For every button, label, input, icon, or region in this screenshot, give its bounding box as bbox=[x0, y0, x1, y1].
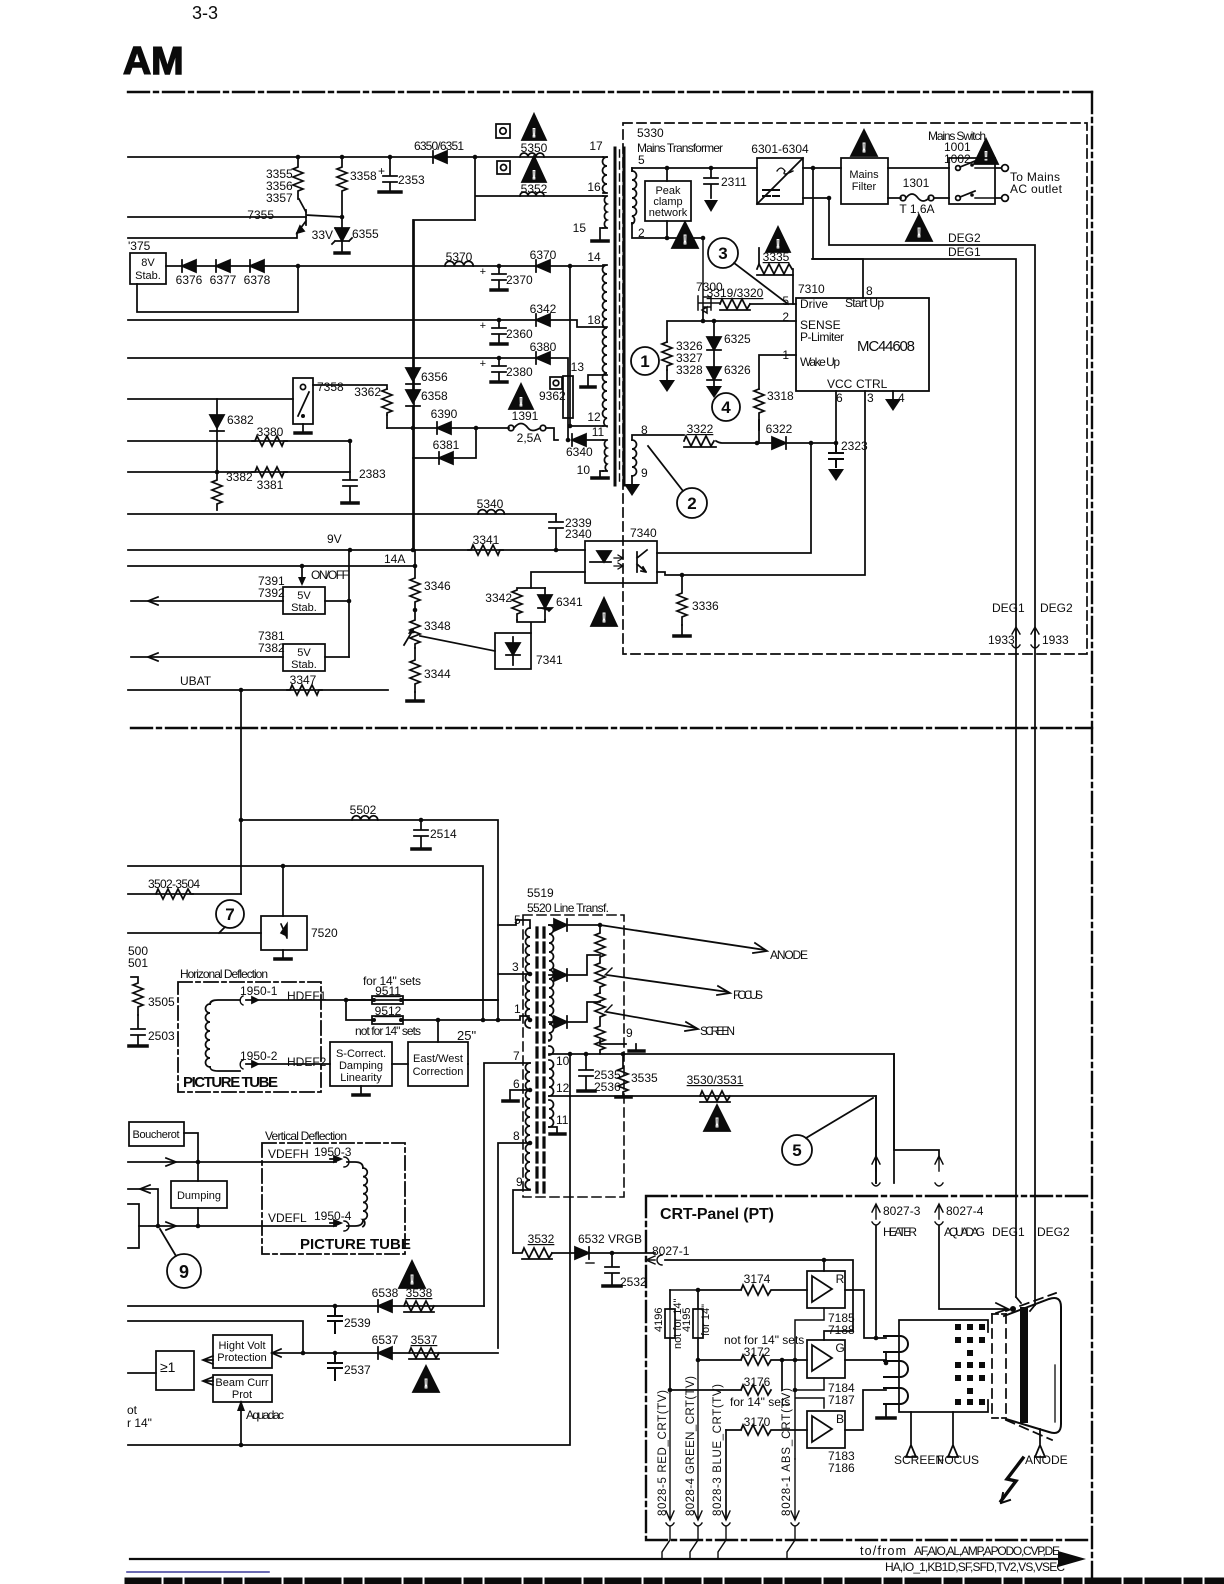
wire 5V out left arrow bbox=[131, 600, 283, 602]
svg-text:3362: 3362 bbox=[354, 385, 381, 399]
dumping verticals bbox=[197, 1162, 199, 1226]
svg-text:6538: 6538 bbox=[372, 1286, 399, 1300]
svg-text:B: B bbox=[836, 1412, 844, 1426]
diodes 6325 6326 bbox=[707, 321, 721, 380]
svg-text:6322: 6322 bbox=[766, 422, 793, 436]
svg-text:6376: 6376 bbox=[176, 273, 203, 287]
svg-text:8027-3: 8027-3 bbox=[883, 1204, 921, 1218]
svg-text:17: 17 bbox=[589, 139, 603, 153]
svg-text:16: 16 bbox=[587, 180, 601, 194]
capacitor 2537 bbox=[328, 1353, 342, 1380]
svg-text:Dumping: Dumping bbox=[177, 1190, 221, 1202]
transistor box 7520 bbox=[282, 866, 284, 916]
ground 3336 bbox=[674, 634, 690, 638]
box Beam Curr Prot bbox=[213, 1375, 272, 1402]
PSU dashed enclosure bbox=[623, 123, 1087, 654]
capacitor 2380 bbox=[492, 358, 506, 381]
diode 6378 bbox=[250, 260, 264, 272]
diode 6380 bbox=[536, 352, 550, 364]
svg-text:3358: 3358 bbox=[350, 169, 377, 183]
svg-text:3538: 3538 bbox=[406, 1286, 433, 1300]
svg-text:2514: 2514 bbox=[430, 827, 457, 841]
svg-text:7341: 7341 bbox=[536, 653, 563, 667]
wire 3380 line bbox=[128, 440, 350, 442]
svg-text:3319/3320: 3319/3320 bbox=[707, 286, 764, 300]
wire 18V line bbox=[128, 320, 603, 327]
fuse 1391 bbox=[508, 425, 514, 431]
mains transformer 5330 core bbox=[614, 148, 617, 485]
svg-text:!: ! bbox=[424, 1376, 428, 1391]
svg-text:6355: 6355 bbox=[352, 227, 379, 241]
svg-text:1: 1 bbox=[640, 352, 649, 371]
svg-text:MC44608: MC44608 bbox=[857, 338, 915, 355]
ferrite bead 5350 bbox=[520, 153, 544, 157]
svg-text:2360: 2360 bbox=[506, 327, 533, 341]
svg-text:3505: 3505 bbox=[148, 995, 175, 1009]
svg-text:33V: 33V bbox=[312, 228, 333, 242]
svg-text:3381: 3381 bbox=[257, 478, 284, 492]
svg-text:FOCUS: FOCUS bbox=[937, 1453, 979, 1467]
resistor 3341 bbox=[468, 545, 503, 555]
svg-text:11: 11 bbox=[592, 425, 605, 439]
pin1 wire bbox=[528, 1018, 533, 1023]
box Hight Volt Protection bbox=[213, 1335, 272, 1368]
chain border right vertical bbox=[1091, 92, 1093, 1584]
svg-text:6378: 6378 bbox=[244, 273, 271, 287]
focus stub bbox=[948, 1412, 958, 1457]
svg-text:2353: 2353 bbox=[398, 173, 425, 187]
clipped box left bbox=[128, 1204, 139, 1248]
svg-text:5520 Line Transf.: 5520 Line Transf. bbox=[527, 901, 609, 915]
svg-text:ANODE: ANODE bbox=[1025, 1453, 1068, 1467]
svg-text:6390: 6390 bbox=[431, 407, 458, 421]
box Mains Filter bbox=[841, 158, 888, 204]
svg-text:4195: 4195 bbox=[681, 1308, 693, 1332]
svg-text:+: + bbox=[480, 266, 486, 278]
focus pot wiper bbox=[605, 968, 612, 1012]
svg-text:Correction: Correction bbox=[413, 1066, 464, 1078]
warning triangle 1391 bbox=[509, 384, 533, 409]
diode 6390 bbox=[437, 422, 451, 434]
svg-text:7187: 7187 bbox=[828, 1393, 855, 1407]
pin6 wire ground bbox=[510, 1090, 530, 1100]
svg-text:3502-3504: 3502-3504 bbox=[148, 877, 200, 891]
circle 5 callout bbox=[782, 1135, 812, 1165]
svg-text:7382: 7382 bbox=[258, 641, 285, 655]
wire line A 6390 bbox=[387, 427, 509, 429]
svg-text:3341: 3341 bbox=[473, 533, 500, 547]
box East/West bbox=[408, 1042, 468, 1086]
wire 6538 line bbox=[128, 1305, 484, 1307]
warning triangle 5352 bbox=[522, 156, 546, 182]
wire R supply bbox=[823, 1260, 825, 1271]
svg-text:East/West: East/West bbox=[413, 1053, 463, 1065]
wire into 7358 bbox=[128, 398, 293, 400]
pin5 wire bbox=[498, 920, 530, 928]
diode 6356 bbox=[406, 368, 420, 390]
svg-text:5: 5 bbox=[782, 294, 789, 308]
svg-text:2: 2 bbox=[782, 310, 789, 324]
svg-text:+: + bbox=[480, 320, 486, 332]
svg-text:!: ! bbox=[984, 149, 988, 163]
circle 7 callout bbox=[216, 900, 244, 928]
diode 6538 bbox=[378, 1300, 392, 1312]
svg-text:3344: 3344 bbox=[424, 667, 451, 681]
svg-text:HEATER: HEATER bbox=[883, 1225, 917, 1239]
svg-text:6: 6 bbox=[513, 1077, 520, 1091]
wire 5V2 in right bbox=[325, 656, 349, 658]
CRT screen band bbox=[1020, 1311, 1028, 1419]
diode 6358 bbox=[406, 390, 420, 406]
wire pin2 bbox=[632, 223, 703, 238]
svg-text:2370: 2370 bbox=[506, 273, 533, 287]
vdef coil bbox=[347, 1162, 363, 1226]
svg-text:6342: 6342 bbox=[530, 302, 557, 316]
bus arrowhead bbox=[1058, 1551, 1086, 1567]
svg-text:8: 8 bbox=[513, 1129, 520, 1143]
diode 6537 bbox=[378, 1347, 392, 1359]
svg-text:!: ! bbox=[776, 237, 780, 251]
pin11 wire ground bbox=[549, 1127, 557, 1133]
wire 3381 line bbox=[128, 471, 350, 473]
warning triangle 5350 bbox=[522, 114, 546, 140]
wire line B 6381 bbox=[413, 428, 476, 458]
svg-text:7310: 7310 bbox=[798, 282, 825, 296]
wire DEG2 bbox=[829, 198, 1035, 1305]
svg-text:6358: 6358 bbox=[421, 389, 448, 403]
transistor 7355 bbox=[297, 210, 342, 233]
resistor 3355 3356 3357 bbox=[293, 157, 303, 199]
svg-text:3: 3 bbox=[512, 960, 519, 974]
diode 6381 bbox=[439, 452, 453, 464]
primary winding 8-9 bbox=[632, 440, 637, 476]
svg-text:HDEF1: HDEF1 bbox=[287, 989, 327, 1003]
svg-text:'375: '375 bbox=[128, 239, 151, 253]
wires rectifier to filter bbox=[803, 168, 841, 198]
secondary winding 11-10 bbox=[603, 440, 607, 471]
eht diode 1 bbox=[549, 919, 567, 931]
wire fuse to 6340 bbox=[546, 428, 558, 440]
diode 6350/6351 bbox=[433, 151, 447, 163]
wire wiper to 7341 bbox=[420, 636, 495, 651]
svg-text:r 14": r 14" bbox=[127, 1416, 152, 1430]
ground 3344 bbox=[414, 692, 416, 700]
svg-text:3176: 3176 bbox=[744, 1375, 771, 1389]
svg-text:Stab.: Stab. bbox=[291, 659, 317, 671]
wire VDEFH bbox=[128, 1161, 336, 1163]
wire 5340 line bbox=[128, 513, 556, 515]
CRT gun box bbox=[899, 1320, 988, 1412]
pot chain bottom ground 9 bbox=[549, 1040, 626, 1044]
capacitor 2514 bbox=[414, 820, 428, 848]
diode 6377 bbox=[216, 260, 230, 272]
wire pin5 bus bbox=[632, 168, 757, 171]
CRT bulb outline bbox=[1004, 1298, 1061, 1433]
svg-text:9: 9 bbox=[626, 1026, 633, 1040]
box 7341 bbox=[495, 633, 531, 669]
svg-text:14: 14 bbox=[587, 250, 601, 264]
inductor 5340 bbox=[478, 510, 504, 514]
svg-text:1933: 1933 bbox=[988, 633, 1015, 647]
svg-text:Stab.: Stab. bbox=[135, 270, 161, 282]
capacitor 2360 bbox=[492, 320, 506, 343]
svg-text:9362: 9362 bbox=[539, 389, 566, 403]
line transformer dashed box bbox=[523, 915, 624, 1197]
wire G output bbox=[845, 1360, 886, 1363]
svg-text:VDEFL: VDEFL bbox=[268, 1211, 307, 1225]
svg-text:DEG2: DEG2 bbox=[1040, 601, 1073, 615]
svg-text:1933: 1933 bbox=[1042, 633, 1069, 647]
aquadag vertical from pin10 line bbox=[128, 1054, 570, 1445]
pin10 line bbox=[549, 1054, 894, 1183]
svg-text:6380: 6380 bbox=[530, 340, 557, 354]
ferrite bead 5352 bbox=[520, 192, 544, 196]
svg-text:5: 5 bbox=[792, 1141, 801, 1160]
secondary winding 17-16 bbox=[603, 157, 608, 193]
svg-text:14A: 14A bbox=[384, 552, 405, 566]
chain border top bbox=[128, 91, 1092, 93]
wire collector to VCC node bbox=[657, 443, 811, 553]
gun heater coils bbox=[884, 1336, 908, 1404]
svg-text:4196: 4196 bbox=[653, 1308, 665, 1332]
svg-text:5V: 5V bbox=[297, 590, 311, 602]
CRT dashed gun extension bbox=[992, 1314, 1006, 1418]
svg-text:3335: 3335 bbox=[763, 250, 790, 264]
wire 6537 line bbox=[272, 1352, 498, 1354]
resistor 3336 bbox=[677, 575, 687, 625]
wire emitter to CTRL bbox=[657, 391, 865, 575]
svg-text:4: 4 bbox=[898, 391, 905, 405]
svg-text:3: 3 bbox=[718, 244, 727, 263]
warning triangle switch bbox=[974, 139, 998, 164]
svg-text:!: ! bbox=[532, 168, 536, 182]
svg-text:ANODE: ANODE bbox=[770, 948, 808, 962]
wire pin9 ground bbox=[631, 476, 633, 484]
diode 6340 bbox=[572, 434, 586, 446]
svg-text:11: 11 bbox=[556, 1113, 569, 1127]
svg-text:Start Up: Start Up bbox=[845, 296, 884, 310]
svg-text:8V: 8V bbox=[141, 257, 155, 269]
CRT panel chain border bbox=[646, 1196, 1092, 1540]
svg-text:3174: 3174 bbox=[744, 1272, 771, 1286]
svg-text:2,5A: 2,5A bbox=[517, 431, 542, 445]
svg-text:2380: 2380 bbox=[506, 365, 533, 379]
svg-text:6350/6351: 6350/6351 bbox=[414, 139, 464, 153]
box 5V Stab upper bbox=[283, 587, 325, 614]
svg-text:Protection: Protection bbox=[217, 1352, 267, 1364]
svg-text:for 14": for 14" bbox=[700, 1304, 712, 1336]
svg-text:3535: 3535 bbox=[631, 1071, 658, 1085]
svg-text:6341: 6341 bbox=[556, 595, 583, 609]
svg-text:HA,IO_1,KB1D,SF,SFD,TV2,VS,VSE: HA,IO_1,KB1D,SF,SFD,TV2,VS,VSEC bbox=[885, 1560, 1065, 1574]
ON/OFF arrow bbox=[301, 566, 303, 583]
svg-text:1950-2: 1950-2 bbox=[240, 1049, 278, 1063]
wire VDEFL bbox=[139, 1225, 336, 1227]
svg-text:DEG2: DEG2 bbox=[1037, 1225, 1070, 1239]
dash box horizontal deflection bbox=[178, 982, 321, 1092]
relay switch 7358 bbox=[293, 378, 313, 424]
capacitor 2353 polarized bbox=[383, 157, 397, 192]
wire 3502-3504 bbox=[128, 893, 241, 895]
svg-text:!: ! bbox=[862, 140, 866, 155]
svg-text:7: 7 bbox=[513, 1049, 520, 1063]
bridge rectifier 6301-6304 bbox=[757, 158, 803, 204]
svg-text:2537: 2537 bbox=[344, 1363, 371, 1377]
ground arrow sense bbox=[666, 370, 668, 380]
primary winding 5-2 bbox=[632, 168, 637, 224]
inductor 5370 bbox=[445, 261, 473, 266]
pin9 wire bbox=[513, 1190, 530, 1253]
screen symbol square 9362 bbox=[550, 377, 562, 389]
svg-text:6382: 6382 bbox=[227, 413, 254, 427]
capacitor 2383 bbox=[343, 441, 357, 502]
screen symbol square 5350 bbox=[496, 124, 510, 138]
svg-text:S-Correct.: S-Correct. bbox=[336, 1048, 386, 1060]
svg-text:7520: 7520 bbox=[311, 926, 338, 940]
svg-text:Wake Up: Wake Up bbox=[800, 355, 840, 369]
diode 6322 bbox=[757, 437, 786, 449]
wire R output bbox=[845, 1290, 886, 1338]
svg-text:DEG1: DEG1 bbox=[992, 601, 1025, 615]
screen symbol square 5352 bbox=[497, 161, 510, 174]
wire 14A line bbox=[128, 550, 415, 566]
focus leader bbox=[607, 975, 730, 995]
svg-text:T 1,6A: T 1,6A bbox=[899, 202, 934, 216]
svg-text:10: 10 bbox=[556, 1054, 570, 1068]
svg-text:6377: 6377 bbox=[210, 273, 237, 287]
lt primary winding lower bbox=[525, 1063, 530, 1189]
circle 9 callout bbox=[167, 1254, 201, 1288]
wire 5V in right bbox=[325, 600, 349, 602]
svg-text:9: 9 bbox=[641, 466, 648, 480]
svg-text:5340: 5340 bbox=[477, 497, 504, 511]
capacitor 2311 bbox=[704, 168, 718, 198]
svg-text:!: ! bbox=[683, 232, 687, 247]
svg-text:8: 8 bbox=[866, 284, 873, 298]
svg-text:Damping: Damping bbox=[339, 1060, 383, 1072]
wire boucherot to vdefh bbox=[184, 1133, 198, 1162]
svg-text:5502: 5502 bbox=[350, 803, 377, 817]
svg-text:Vertical Deflection: Vertical Deflection bbox=[265, 1129, 347, 1143]
lt secondary winding upper bbox=[549, 925, 554, 1041]
resistor 3380 bbox=[252, 436, 287, 446]
resistor 3346 bbox=[410, 566, 420, 610]
svg-text:8027-1: 8027-1 bbox=[652, 1244, 690, 1258]
svg-text:DEG1: DEG1 bbox=[992, 1225, 1025, 1239]
connector 1950-3 bbox=[330, 1156, 341, 1162]
svg-text:Aquadac: Aquadac bbox=[246, 1408, 284, 1422]
resistor 3342 bbox=[512, 588, 545, 620]
svg-text:5: 5 bbox=[514, 913, 521, 927]
warning triangle deg lines bbox=[906, 215, 932, 241]
svg-text:PICTURE TUBE: PICTURE TUBE bbox=[300, 1236, 411, 1253]
svg-text:!: ! bbox=[519, 395, 523, 409]
svg-text:AQUADAG: AQUADAG bbox=[944, 1225, 985, 1239]
svg-text:PICTURE TUBE: PICTURE TUBE bbox=[183, 1074, 278, 1091]
svg-text:ON/OFF: ON/OFF bbox=[311, 568, 349, 582]
svg-text:!: ! bbox=[715, 1115, 719, 1130]
wire 5502 branch bbox=[241, 820, 498, 1020]
leader circle7 bbox=[219, 927, 225, 933]
wire long mid line bbox=[128, 866, 483, 1020]
svg-text:3: 3 bbox=[867, 391, 874, 405]
svg-text:3380: 3380 bbox=[257, 425, 284, 439]
wire LED cathode to regulators bbox=[531, 572, 585, 588]
svg-text:3322: 3322 bbox=[687, 422, 714, 436]
svg-text:6340: 6340 bbox=[566, 445, 593, 459]
svg-text:P-Limiter: P-Limiter bbox=[800, 330, 844, 344]
warning triangle peak clamp bbox=[672, 222, 698, 248]
wire VRGB into panel bbox=[665, 1260, 853, 1340]
wire 9V line to optocoupler bbox=[128, 549, 585, 551]
svg-text:25": 25" bbox=[457, 1028, 476, 1043]
diode 6382 bbox=[210, 399, 224, 472]
secondary winding 14-18-13-12 bbox=[603, 265, 608, 427]
wire into 7520 bbox=[128, 932, 261, 934]
ge1 arrows bbox=[203, 1356, 213, 1385]
svg-text:6325: 6325 bbox=[724, 332, 751, 346]
heater connector 8027-3 bbox=[875, 1096, 877, 1338]
resistor 3505 bbox=[131, 977, 143, 1015]
svg-text:5330: 5330 bbox=[637, 126, 664, 140]
circle 4 callout bbox=[712, 393, 740, 421]
svg-text:!: ! bbox=[917, 225, 921, 240]
wire hdef2 to scorrect bbox=[252, 1063, 330, 1065]
svg-text:UBAT: UBAT bbox=[180, 674, 212, 688]
svg-text:13: 13 bbox=[571, 360, 585, 374]
warning triangle 3530 bbox=[704, 1105, 730, 1131]
warning triangle deg bbox=[591, 598, 617, 626]
svg-text:6532: 6532 bbox=[578, 1232, 605, 1246]
wire filter to switch top bbox=[888, 167, 949, 169]
zener 6341 bbox=[538, 588, 552, 620]
svg-text:+: + bbox=[378, 164, 385, 178]
svg-text:3382: 3382 bbox=[226, 470, 253, 484]
svg-text:5370: 5370 bbox=[446, 250, 473, 264]
wire UBAT down branch bbox=[240, 690, 242, 894]
resistor 3344 bbox=[410, 648, 420, 692]
svg-text:2: 2 bbox=[687, 494, 696, 513]
junction dots top bus bbox=[296, 155, 478, 160]
anode leader bbox=[600, 925, 767, 953]
svg-text:7186: 7186 bbox=[828, 1461, 855, 1475]
capacitor 2532 bbox=[605, 1253, 619, 1285]
vertical link pins 14-12 bbox=[570, 266, 603, 426]
wire hvp branch bbox=[128, 1321, 303, 1353]
svg-text:VCC: VCC bbox=[827, 377, 853, 391]
warning triangle 3538 bbox=[399, 1261, 425, 1288]
svg-text:!: ! bbox=[602, 610, 606, 625]
svg-text:AC outlet: AC outlet bbox=[1010, 182, 1063, 196]
amp R bbox=[807, 1271, 845, 1308]
capacitor 2370 bbox=[492, 266, 506, 289]
svg-text:7392: 7392 bbox=[258, 586, 285, 600]
svg-text:6301-6304: 6301-6304 bbox=[751, 142, 809, 156]
phosphor dot pattern bbox=[955, 1324, 985, 1405]
potentiometer 3348 bbox=[410, 610, 420, 648]
svg-text:3537: 3537 bbox=[411, 1333, 438, 1347]
svg-text:12: 12 bbox=[556, 1081, 570, 1095]
svg-text:+: + bbox=[480, 358, 486, 370]
svg-text:Filter: Filter bbox=[852, 181, 877, 193]
svg-text:Mains Transformer: Mains Transformer bbox=[637, 141, 723, 155]
wire 13V line bbox=[128, 358, 568, 376]
svg-text:6: 6 bbox=[836, 391, 843, 405]
dash box vertical deflection bbox=[262, 1143, 405, 1254]
fuse 1301 bbox=[888, 197, 901, 199]
wire eastwest to pin7 bbox=[467, 1063, 469, 1065]
amp B bbox=[807, 1411, 845, 1448]
